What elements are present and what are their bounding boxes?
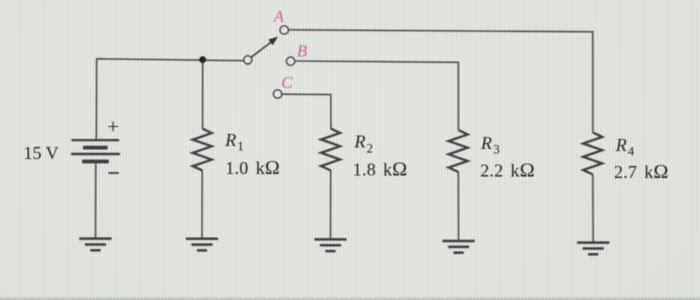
svg-text:2.7 kΩ: 2.7 kΩ [614, 161, 669, 183]
svg-text:B: B [297, 41, 308, 60]
svg-text:2: 2 [367, 140, 374, 155]
svg-text:1.0 kΩ: 1.0 kΩ [225, 157, 280, 179]
svg-text:R: R [615, 135, 627, 155]
svg-text:R: R [354, 132, 366, 152]
svg-text:1: 1 [237, 139, 244, 154]
svg-text:2.2 kΩ: 2.2 kΩ [480, 160, 535, 182]
svg-text:C: C [281, 73, 293, 92]
svg-text:R: R [224, 130, 236, 150]
svg-text:15 V: 15 V [24, 143, 59, 163]
svg-text:R: R [480, 133, 492, 153]
svg-text:A: A [273, 7, 285, 26]
svg-text:+: + [107, 116, 119, 138]
svg-text:3: 3 [493, 142, 500, 157]
svg-text:1.8 kΩ: 1.8 kΩ [353, 159, 408, 181]
svg-text:4: 4 [628, 144, 635, 159]
